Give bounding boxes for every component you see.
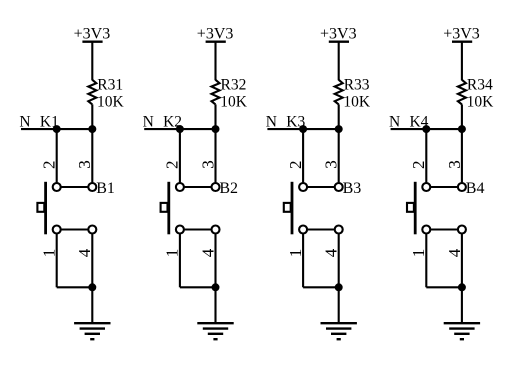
svg-text:10K: 10K [97,93,125,110]
svg-text:R32: R32 [221,77,247,94]
svg-text:3: 3 [75,160,94,169]
svg-text:+3V3: +3V3 [443,26,480,43]
svg-text:1: 1 [163,249,182,258]
svg-text:4: 4 [198,248,217,257]
svg-text:1: 1 [286,249,305,258]
svg-text:4: 4 [322,248,341,257]
svg-text:K3: K3 [286,113,305,130]
svg-text:3: 3 [322,160,341,169]
svg-text:N: N [266,113,277,130]
svg-text:1: 1 [409,249,428,258]
svg-text:R33: R33 [344,77,370,94]
svg-text:2: 2 [286,161,305,170]
svg-text:N: N [19,113,30,130]
svg-text:10K: 10K [343,93,371,110]
svg-text:4: 4 [445,248,464,257]
svg-text:R31: R31 [97,77,123,94]
svg-text:R34: R34 [467,77,493,94]
svg-text:1: 1 [40,249,59,258]
svg-text:3: 3 [445,160,464,169]
svg-text:+3V3: +3V3 [197,26,234,43]
svg-text:10K: 10K [467,93,495,110]
svg-text:10K: 10K [220,93,248,110]
svg-text:+3V3: +3V3 [320,26,357,43]
svg-text:B3: B3 [343,180,362,197]
svg-text:N: N [389,113,400,130]
svg-text:4: 4 [75,248,94,257]
svg-text:2: 2 [163,161,182,170]
svg-text:B2: B2 [219,180,238,197]
svg-text:K1: K1 [40,113,59,130]
svg-text:B1: B1 [96,180,115,197]
svg-text:+3V3: +3V3 [74,26,111,43]
svg-text:K4: K4 [410,113,429,130]
svg-text:3: 3 [198,160,217,169]
svg-text:2: 2 [40,161,59,170]
svg-text:N: N [143,113,154,130]
svg-text:2: 2 [409,161,428,170]
svg-text:K2: K2 [163,113,182,130]
svg-text:B4: B4 [466,180,485,197]
